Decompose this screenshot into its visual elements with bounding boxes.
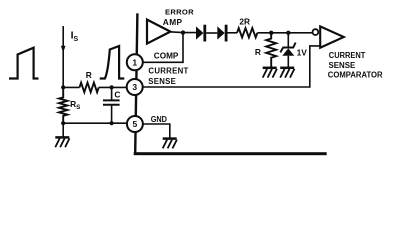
svg-text:R: R bbox=[255, 47, 261, 57]
current sense comparator bbox=[320, 26, 344, 47]
IC boundary vertical bus bbox=[135, 13, 137, 153]
ground under Rs bbox=[55, 137, 69, 147]
node at C bottom wire bbox=[110, 121, 114, 125]
svg-text:SENSE: SENSE bbox=[329, 60, 356, 70]
svg-text:COMPARATOR: COMPARATOR bbox=[328, 70, 384, 80]
node at Rs top bbox=[61, 85, 65, 89]
wire 2R to node row bbox=[257, 32, 312, 34]
svg-text:COMP: COMP bbox=[154, 52, 179, 61]
wire pin5 to ground bbox=[143, 124, 170, 138]
svg-text:1: 1 bbox=[132, 57, 137, 67]
svg-text:2R: 2R bbox=[239, 17, 250, 27]
wire pin 3 current sense to comparator bbox=[143, 46, 321, 88]
wire COMP feedback bbox=[143, 33, 184, 63]
svg-text:CURRENT: CURRENT bbox=[148, 66, 188, 75]
wire between diodes bbox=[206, 32, 217, 34]
svg-text:1V: 1V bbox=[297, 47, 308, 57]
svg-text:C: C bbox=[114, 89, 120, 99]
ground under zener bbox=[280, 68, 294, 78]
wire error amp output bbox=[170, 31, 197, 34]
svg-text:AMP: AMP bbox=[163, 17, 183, 27]
diode D1 bbox=[196, 26, 203, 39]
resistor R (horizontal, left) bbox=[80, 83, 99, 93]
current source Is wire with down arrow bbox=[62, 26, 64, 87]
wire Rs bottom to ground bbox=[62, 123, 64, 138]
ground at pin5 bbox=[163, 139, 177, 149]
node at C top bbox=[110, 85, 114, 89]
zener diode 1V bbox=[287, 33, 289, 68]
svg-text:ERROR: ERROR bbox=[165, 7, 194, 16]
node error amp output bbox=[181, 30, 185, 34]
svg-text:3: 3 bbox=[132, 82, 137, 92]
svg-text:SENSE: SENSE bbox=[148, 77, 176, 86]
resistor Rs (vertical) bbox=[59, 87, 67, 123]
op-amp error amplifier bbox=[147, 20, 170, 44]
resistor 2R (horizontal) bbox=[237, 28, 257, 37]
svg-text:5: 5 bbox=[133, 119, 138, 129]
node R top bbox=[269, 31, 273, 35]
pin 3 circle bbox=[127, 79, 143, 95]
pin 5 circle bbox=[127, 116, 143, 132]
svg-text:R: R bbox=[86, 70, 92, 80]
waveform pulse icon 1 bbox=[9, 48, 39, 79]
resistor R (vertical, right) bbox=[266, 33, 276, 68]
node zener top bbox=[286, 31, 290, 35]
capacitor C bbox=[111, 87, 113, 123]
pin 1 circle bbox=[127, 54, 143, 70]
ground under R bbox=[263, 68, 277, 78]
svg-text:CURRENT: CURRENT bbox=[329, 50, 366, 60]
wire node to R resistor to pin 3 bbox=[63, 86, 127, 88]
node at Rs bottom bbox=[61, 121, 65, 125]
bottom bus (thick) bbox=[134, 152, 327, 155]
comparator input bubble bbox=[313, 29, 319, 35]
svg-text:GND: GND bbox=[151, 115, 167, 124]
diode D2 bbox=[217, 26, 224, 39]
wire D2 to 2R bbox=[228, 32, 238, 34]
waveform pulse icon 2 bbox=[100, 46, 125, 79]
wire bottom row to pin 5 bbox=[63, 122, 127, 124]
